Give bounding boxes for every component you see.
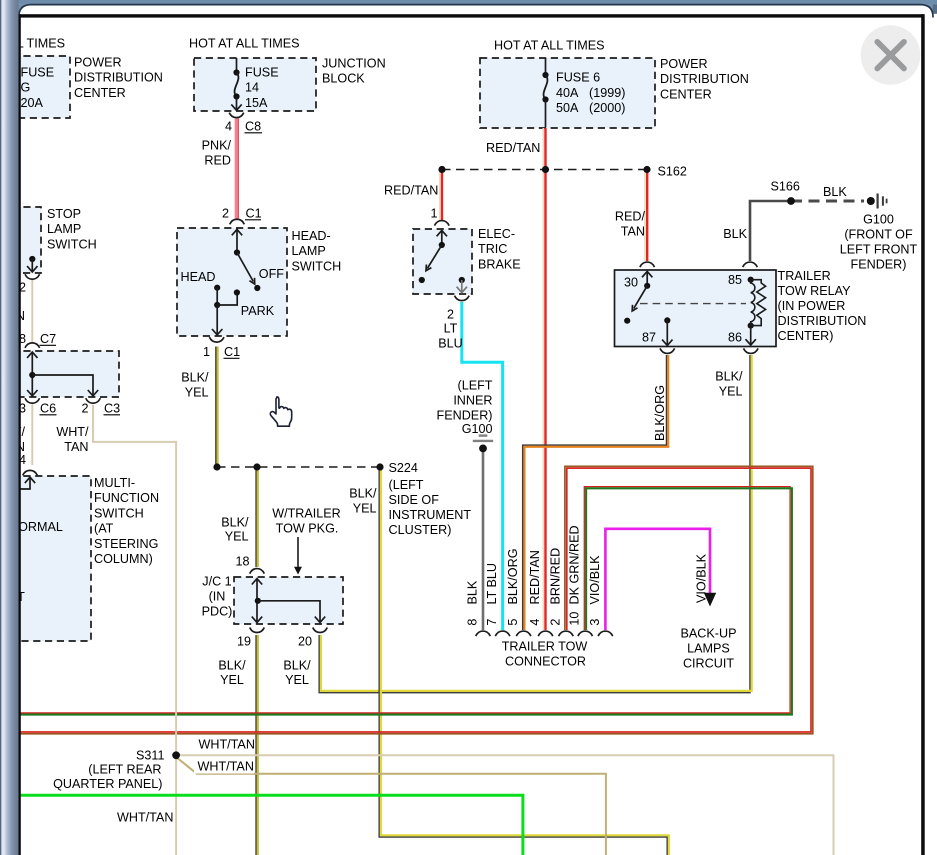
svg-text:2: 2 — [82, 402, 89, 416]
svg-text:TOW RELAY: TOW RELAY — [778, 284, 852, 298]
connector cap above electric brake — [435, 221, 450, 226]
svg-text:YEL: YEL — [185, 386, 209, 400]
connector cap trailer tow pin 8 — [476, 631, 491, 636]
svg-text:HOT AT ALL TIMES: HOT AT ALL TIMES — [189, 37, 300, 51]
relay coil (inductor and resistor) — [748, 277, 754, 283]
svg-text:(LEFT: (LEFT — [458, 379, 493, 393]
svg-text:S162: S162 — [658, 165, 687, 179]
svg-text:TAN: TAN — [64, 440, 88, 454]
svg-text:RED/TAN: RED/TAN — [384, 184, 438, 198]
svg-text:HEAD: HEAD — [181, 270, 216, 284]
svg-text:BLK: BLK — [823, 185, 847, 199]
svg-text:POWER: POWER — [660, 57, 708, 71]
svg-text:BLK/ORG: BLK/ORG — [653, 385, 667, 441]
svg-text:VIO/BLK: VIO/BLK — [694, 553, 708, 603]
svg-text:(LEFT: (LEFT — [389, 478, 424, 492]
connector cap below stop lamp switch — [25, 274, 40, 279]
svg-text:CENTER): CENTER) — [778, 329, 834, 343]
svg-text:CONNECTOR: CONNECTOR — [505, 655, 586, 669]
connector C8 cap — [229, 113, 244, 118]
connector cap trailer tow pin 7 — [495, 631, 510, 636]
wire BLK/YEL (S224 down to bottom right) — [379, 467, 667, 855]
svg-text:5: 5 — [506, 619, 520, 626]
svg-text:1: 1 — [203, 345, 210, 359]
svg-text:LAMPS: LAMPS — [687, 642, 730, 656]
svg-text:YEL: YEL — [225, 530, 249, 544]
svg-text:FENDER): FENDER) — [437, 409, 493, 423]
svg-text:18: 18 — [235, 555, 249, 569]
svg-text:CLUSTER): CLUSTER) — [389, 523, 452, 537]
svg-text:TRIC: TRIC — [478, 242, 507, 256]
svg-text:G100: G100 — [863, 213, 894, 227]
inner black border left — [19, 14, 21, 855]
svg-text:BLK/: BLK/ — [221, 516, 249, 530]
svg-text:ELEC-: ELEC- — [478, 227, 515, 241]
connector cap trailer tow pin 4 — [538, 631, 553, 636]
svg-text:(IN POWER: (IN POWER — [778, 299, 846, 313]
wire WHT/TAN (C3 to S311) — [93, 405, 176, 855]
svg-text:BLU: BLU — [438, 337, 463, 351]
wire DK GRN/RED (trailer connector pin 10 across bottom) — [18, 487, 790, 713]
svg-text:COLUMN): COLUMN) — [94, 552, 153, 566]
svg-text:BLK/ORG: BLK/ORG — [506, 549, 520, 605]
svg-text:SWITCH: SWITCH — [94, 506, 144, 520]
wire BLK/YEL (S224 to J/C 1 pin 18) — [255, 467, 257, 567]
svg-text:15A: 15A — [245, 96, 268, 110]
svg-text:BLOCK: BLOCK — [322, 72, 365, 86]
multi-function switch box — [0, 476, 91, 641]
top blue bar — [0, 0, 937, 4]
svg-text:YEL: YEL — [285, 673, 309, 687]
splice line S224 — [217, 466, 380, 468]
svg-text:FUSE: FUSE — [21, 66, 55, 80]
connector C1 cap (top of headlamp switch) — [230, 219, 245, 224]
svg-text:LAMP: LAMP — [292, 244, 326, 258]
svg-text:W/TRAILER: W/TRAILER — [272, 507, 341, 521]
svg-text:QUARTER PANEL): QUARTER PANEL) — [53, 777, 162, 791]
electric brake box — [413, 229, 472, 294]
svg-text:C3: C3 — [104, 402, 120, 416]
panel rounded corners white fill — [19, 5, 31, 18]
svg-text:CENTER: CENTER — [660, 87, 712, 101]
svg-text:40A: 40A — [556, 86, 579, 100]
ground G100 (front of left front fender) — [867, 197, 875, 205]
wire RED/TAN (S162 to relay pin 30) — [644, 170, 646, 262]
relay internal dashed line — [640, 303, 746, 305]
relay pin 87 contact — [664, 317, 670, 323]
svg-text:PDC): PDC) — [202, 605, 233, 619]
node S162 dot left — [438, 166, 445, 173]
svg-text:BLK/: BLK/ — [181, 371, 209, 385]
connector cap relay pin 30 — [640, 262, 655, 267]
svg-text:LT BLU: LT BLU — [485, 563, 499, 605]
svg-text:YEL: YEL — [719, 385, 743, 399]
svg-text:BACK-UP: BACK-UP — [681, 627, 737, 641]
svg-text:10: 10 — [568, 612, 582, 626]
svg-text:DISTRIBUTION: DISTRIBUTION — [74, 71, 163, 85]
svg-text:BLK/: BLK/ — [218, 659, 246, 673]
svg-text:G: G — [21, 81, 31, 95]
svg-text:4: 4 — [528, 619, 542, 626]
svg-text:14: 14 — [245, 81, 259, 95]
svg-text:SWITCH: SWITCH — [47, 237, 97, 251]
svg-text:TAN: TAN — [621, 225, 645, 239]
svg-text:HEAD-: HEAD- — [292, 229, 331, 243]
svg-text:BLK/: BLK/ — [349, 487, 377, 501]
wire GRN (bottom bright green) — [18, 795, 523, 855]
wire BLK (relay pin 85 to S166) — [750, 201, 791, 261]
splice line S162 — [442, 169, 647, 171]
svg-text:RED/: RED/ — [615, 210, 646, 224]
connector cap above multi-function switch — [23, 470, 38, 475]
svg-text:TRAILER TOW: TRAILER TOW — [502, 640, 588, 654]
svg-text:VIO/BLK: VIO/BLK — [588, 555, 602, 605]
svg-text:MULTI-: MULTI- — [94, 476, 135, 490]
svg-text:(AT: (AT — [94, 522, 114, 536]
connector cap trailer tow pin 10 — [578, 631, 593, 636]
node S166 dot — [787, 197, 795, 205]
svg-text:CIRCUIT: CIRCUIT — [683, 657, 734, 671]
node S224 dot middle — [253, 463, 260, 470]
wire RED/TAN (fuse 6 to trailer tow connector pin 4) — [542, 128, 544, 630]
J/C 1 internal wires — [252, 579, 262, 585]
close button — [861, 25, 921, 85]
connector C3 cap — [86, 398, 101, 403]
wire WHT/TAN (S311 branch 1 right) — [176, 755, 833, 855]
svg-text:S311: S311 — [136, 749, 164, 763]
svg-text:S224: S224 — [389, 461, 418, 475]
mouse cursor (hand pointer) — [270, 397, 291, 426]
C7/C6 connector internal wires — [27, 352, 37, 358]
svg-text:BRAKE: BRAKE — [478, 257, 521, 271]
svg-text:19: 19 — [237, 635, 251, 649]
svg-text:LEFT FRONT: LEFT FRONT — [840, 243, 918, 257]
stop lamp switch box — [0, 207, 41, 273]
svg-text:DISTRIBUTION: DISTRIBUTION — [778, 314, 867, 328]
svg-text:2: 2 — [222, 207, 229, 221]
connector cap J/C 1 pin 18 — [250, 569, 265, 574]
svg-text:2: 2 — [548, 619, 562, 626]
junction block box — [194, 58, 316, 111]
svg-text:DISTRIBUTION: DISTRIBUTION — [660, 72, 749, 86]
connector C6 cap — [25, 398, 40, 403]
relay pin 30 switch — [642, 271, 652, 277]
svg-text:20A: 20A — [21, 96, 44, 110]
node S311 dot — [172, 751, 180, 759]
fuse 14 symbol (junction block) — [236, 58, 238, 73]
svg-text:DK GRN/RED: DK GRN/RED — [568, 525, 582, 604]
svg-text:INSTRUMENT: INSTRUMENT — [389, 508, 472, 522]
svg-text:C1: C1 — [224, 345, 240, 359]
wire (stop lamp switch to C7) — [31, 280, 33, 342]
svg-text:BLK/: BLK/ — [283, 659, 311, 673]
svg-text:C8: C8 — [245, 120, 261, 134]
connector C7/C6/C3 box — [0, 351, 119, 397]
svg-text:WHT/TAN: WHT/TAN — [117, 811, 173, 825]
svg-text:BRN/RED: BRN/RED — [548, 548, 562, 605]
multi-function switch internal wire — [12, 478, 30, 490]
svg-text:YEL: YEL — [353, 502, 377, 516]
svg-text:20: 20 — [298, 635, 312, 649]
svg-text:4: 4 — [225, 120, 232, 134]
corner notch backgrounds — [19, 4, 31, 17]
svg-text:FUSE 6: FUSE 6 — [556, 71, 600, 85]
svg-text:HOT AT ALL TIMES: HOT AT ALL TIMES — [494, 39, 605, 53]
connector cap relay pin 86 — [744, 348, 759, 353]
power distribution center box (fuse 6) — [480, 58, 655, 128]
stop lamp switch contact — [29, 256, 35, 262]
svg-text:TOW PKG.: TOW PKG. — [276, 522, 339, 536]
svg-text:YEL: YEL — [220, 673, 244, 687]
svg-text:POWER: POWER — [74, 56, 122, 70]
label WHT/TAN (S311 branch 1) — [195, 737, 255, 751]
svg-text:7: 7 — [485, 619, 499, 626]
electric brake contacts — [437, 230, 447, 236]
wire BLK/YEL (J/C 1 pin 19 down) — [255, 635, 257, 855]
wire BLK/YEL (headlamp C1 to S224) — [215, 347, 217, 468]
svg-text:PNK/: PNK/ — [202, 139, 232, 153]
wire VIO/BLK (trailer connector pin 3 to back-up lamps arrow) — [605, 529, 710, 630]
wire BLK/ORG (relay pin 87 to trailer connector pin 5) — [523, 355, 667, 630]
svg-text:CENTER: CENTER — [74, 86, 126, 100]
svg-text:WHT/: WHT/ — [56, 425, 89, 439]
wire BLK (G100 inner fender to trailer connector pin 8) — [482, 450, 485, 630]
svg-text:C6: C6 — [40, 402, 56, 416]
svg-text:S166: S166 — [771, 180, 800, 194]
svg-text:J/C 1: J/C 1 — [202, 575, 231, 589]
wire BLK dashed (S166 to G100 ground) — [791, 200, 864, 203]
connector C7 cap — [25, 343, 40, 348]
J/C 1 box (in PDC) — [234, 577, 343, 624]
svg-text:1: 1 — [430, 207, 437, 221]
svg-text:2: 2 — [447, 308, 454, 322]
svg-text:FUNCTION: FUNCTION — [94, 491, 159, 505]
svg-text:FUSE: FUSE — [245, 66, 279, 80]
wire BLK/YEL (J/C 1 pin 20 to relay pin 86) — [319, 355, 750, 693]
connector cap relay pin 85 — [743, 262, 758, 267]
panel rounded outline — [19, 5, 933, 30]
svg-text:SIDE OF: SIDE OF — [389, 493, 440, 507]
inner black border right — [921, 14, 925, 855]
svg-text:LT: LT — [444, 322, 458, 336]
svg-text:BLK: BLK — [723, 227, 747, 241]
wire BRN/RED (trailer connector pin 2 across bottom) — [18, 466, 813, 734]
fuse box (power distribution center, top left, clipped) — [0, 56, 70, 118]
connector C1 cap (bottom of headlamp switch) — [209, 337, 224, 342]
ground G100 (left inner fender) — [473, 440, 493, 442]
svg-text:85: 85 — [728, 273, 742, 287]
svg-text:WHT/TAN: WHT/TAN — [198, 760, 254, 774]
connector cap below electric brake (pin 2) — [455, 296, 470, 301]
connector cap relay pin 87 — [660, 348, 675, 353]
wire PNK/RED (fuse 14 to headlamp switch) — [235, 118, 238, 218]
node S224 dot right — [376, 463, 383, 470]
svg-text:86: 86 — [728, 331, 742, 345]
svg-text:3: 3 — [588, 619, 602, 626]
svg-text:RED/TAN: RED/TAN — [528, 550, 542, 604]
arrow w/trailer tow pkg — [297, 537, 299, 569]
svg-text:C7: C7 — [40, 332, 56, 346]
svg-text:BLK/: BLK/ — [715, 370, 743, 384]
svg-text:PARK: PARK — [241, 304, 275, 318]
node S162 dot right — [643, 166, 650, 173]
svg-text:JUNCTION: JUNCTION — [322, 57, 386, 71]
wire (C6 down to multi-function switch) — [31, 405, 33, 466]
fuse 6 symbol (PDC) — [545, 58, 547, 75]
svg-text:(2000): (2000) — [589, 101, 625, 115]
svg-text:50A: 50A — [556, 101, 579, 115]
inner black border top — [19, 14, 924, 17]
connector cap trailer tow pin 3 — [598, 631, 613, 636]
headlamp switch contacts — [232, 229, 242, 235]
arrow to back-up lamps circuit — [704, 593, 716, 607]
svg-text:STEERING: STEERING — [94, 537, 158, 551]
headlamp switch box — [177, 228, 287, 336]
svg-text:BLK: BLK — [465, 580, 479, 604]
svg-text:G100: G100 — [462, 422, 493, 436]
connector cap trailer tow pin 5 — [516, 631, 531, 636]
svg-text:C1: C1 — [246, 207, 262, 221]
node S224 dot left — [213, 463, 220, 470]
svg-text:30: 30 — [624, 276, 638, 290]
connector cap J/C 1 pin 19 — [250, 628, 265, 633]
svg-text:RED: RED — [204, 154, 231, 168]
node S162 dot middle — [542, 166, 549, 173]
wire RED/TAN (S162 to electric brake) — [439, 170, 441, 222]
svg-text:STOP: STOP — [47, 207, 81, 221]
wire LT BLU (electric brake pin 2 to trailer connector pin 7) — [462, 302, 503, 630]
connector cap trailer tow pin 2 — [559, 631, 574, 636]
trailer tow relay box — [615, 270, 777, 347]
svg-text:LAMP: LAMP — [47, 222, 81, 236]
connector cap J/C 1 pin 20 — [313, 628, 328, 633]
svg-text:SWITCH: SWITCH — [292, 259, 342, 273]
svg-text:INNER: INNER — [453, 394, 492, 408]
label WHT/TAN (S311 branch 2) — [194, 760, 254, 774]
relay pin 86 arrow — [750, 326, 752, 345]
svg-text:OFF: OFF — [259, 267, 284, 281]
svg-text:(FRONT OF: (FRONT OF — [844, 228, 913, 242]
svg-text:(IN: (IN — [209, 590, 226, 604]
svg-text:8: 8 — [465, 619, 479, 626]
svg-text:(LEFT REAR: (LEFT REAR — [88, 763, 161, 777]
svg-text:RED/TAN: RED/TAN — [486, 141, 540, 155]
wire WHT/TAN (S311 branch 2 right) — [176, 757, 606, 855]
svg-text:WHT/TAN: WHT/TAN — [199, 738, 255, 752]
svg-text:TRAILER: TRAILER — [778, 269, 831, 283]
svg-text:87: 87 — [642, 331, 656, 345]
svg-text:FENDER): FENDER) — [851, 258, 907, 272]
svg-text:(1999): (1999) — [589, 86, 625, 100]
